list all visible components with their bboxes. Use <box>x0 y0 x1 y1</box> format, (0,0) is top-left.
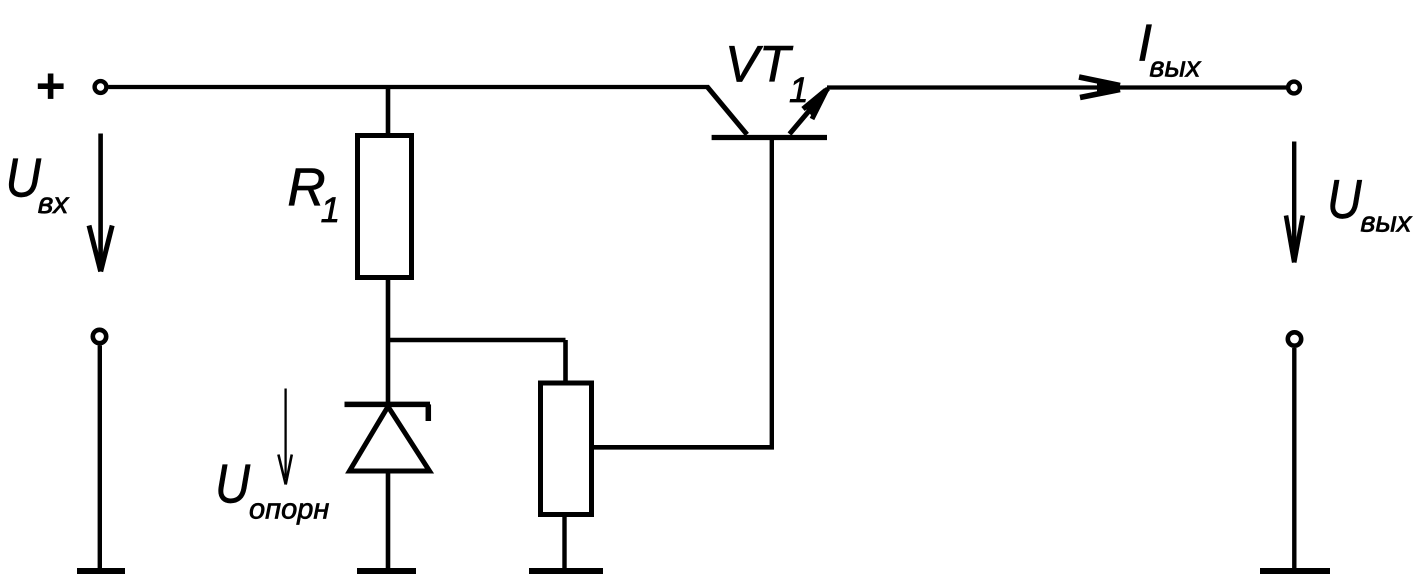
output terminal (bottom right) <box>1288 332 1301 345</box>
plus polarity mark <box>38 74 64 99</box>
bottom bar R2 <box>529 568 603 574</box>
wire: divider branch horizontal <box>386 338 566 343</box>
wire: bottom right terminal down <box>1292 348 1296 569</box>
bottom bar zener <box>357 568 416 574</box>
resistor R1 <box>358 136 412 278</box>
bottom bar left terminal <box>77 568 125 574</box>
label R1 <box>287 158 340 230</box>
zener diode VD1 cathode bar <box>345 404 431 421</box>
svg-text:1: 1 <box>321 191 340 230</box>
svg-text:вых: вых <box>1360 207 1412 239</box>
wire: input terminal to collector <box>109 85 710 89</box>
arrow I_vyh on output wire <box>1079 77 1124 98</box>
wire: bottom left terminal down <box>98 346 102 570</box>
wire: R2 bottom down <box>562 515 566 569</box>
output terminal (top right) <box>1288 82 1300 94</box>
wire: R1 bottom to zener <box>386 277 391 403</box>
svg-text:U: U <box>1327 168 1362 230</box>
svg-text:вх: вх <box>38 187 70 220</box>
wire: emitter to output terminal <box>827 85 1287 89</box>
wire: transistor base down <box>770 140 774 450</box>
svg-text:U: U <box>215 453 250 515</box>
zener diode VD1 triangle <box>350 407 430 472</box>
wire: top rail to R1 <box>386 87 391 135</box>
label U_oporn <box>215 453 329 526</box>
input terminal (top left) <box>95 81 107 93</box>
label VT1 <box>725 36 808 111</box>
svg-text:опорн: опорн <box>249 494 329 526</box>
wire: branch down to R2 <box>563 340 568 382</box>
arrow U_oporn <box>278 389 291 485</box>
input terminal (bottom left) <box>93 330 106 343</box>
svg-text:U: U <box>6 147 42 209</box>
svg-text:1: 1 <box>789 71 808 110</box>
bottom bar right terminal <box>1260 568 1330 574</box>
svg-text:вых: вых <box>1149 52 1201 84</box>
arrow U_vx <box>89 134 112 272</box>
wire: zener anode down <box>386 471 391 569</box>
transistor VT1 <box>707 87 828 138</box>
wire: R2 tap to base <box>592 445 774 450</box>
label U_vyh <box>1327 168 1413 239</box>
label U_vx <box>6 147 70 221</box>
arrow U_vyh <box>1286 142 1303 263</box>
label I_vyh <box>1138 15 1202 84</box>
resistor R2 (divider) <box>541 383 592 515</box>
svg-text:VT: VT <box>725 36 794 93</box>
